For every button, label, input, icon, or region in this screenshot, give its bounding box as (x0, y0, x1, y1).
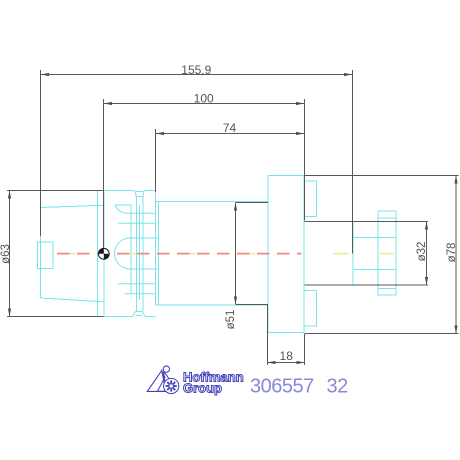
svg-text:306557: 306557 (250, 376, 314, 398)
svg-text:32: 32 (327, 376, 349, 398)
svg-text:74: 74 (223, 121, 237, 135)
svg-text:18: 18 (280, 349, 294, 363)
svg-text:155,9: 155,9 (181, 63, 211, 77)
svg-text:ø32: ø32 (416, 242, 428, 262)
svg-text:ø51: ø51 (225, 310, 237, 330)
svg-text:100: 100 (194, 91, 214, 105)
svg-text:Group: Group (183, 381, 222, 396)
svg-text:ø78: ø78 (446, 243, 458, 263)
svg-text:ø63: ø63 (0, 244, 12, 264)
